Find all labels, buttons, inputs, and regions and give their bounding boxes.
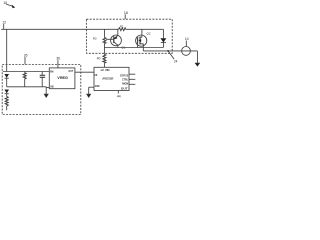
svg-text:GND: GND: [95, 84, 100, 88]
svg-text:14: 14: [185, 37, 189, 41]
svg-text:GND: GND: [50, 84, 53, 88]
svg-text:40: 40: [97, 56, 101, 60]
svg-text:44: 44: [117, 95, 121, 99]
svg-text:18: 18: [124, 11, 128, 15]
svg-text:uC VIN: uC VIN: [101, 68, 110, 72]
svg-text:uPROCESSOR: uPROCESSOR: [102, 77, 113, 81]
svg-text:Q2: Q2: [147, 31, 151, 35]
svg-text:10: 10: [3, 1, 7, 5]
svg-text:26: 26: [24, 54, 28, 58]
svg-text:R1: R1: [120, 24, 124, 28]
svg-text:STATUS: STATUS: [120, 73, 128, 77]
svg-text:24: 24: [174, 59, 178, 63]
svg-text:R2: R2: [93, 36, 97, 40]
svg-text:CTRL: CTRL: [122, 77, 129, 81]
svg-text:OUT: OUT: [69, 69, 74, 73]
svg-text:12: 12: [2, 21, 6, 25]
svg-text:Q1: Q1: [121, 45, 125, 49]
svg-text:VREG: VREG: [57, 76, 68, 80]
svg-text:OUT: OUT: [121, 86, 128, 90]
svg-text:IN: IN: [50, 69, 53, 73]
svg-text:MON: MON: [122, 81, 128, 85]
svg-text:EN: EN: [95, 73, 98, 77]
svg-text:36: 36: [56, 57, 60, 61]
